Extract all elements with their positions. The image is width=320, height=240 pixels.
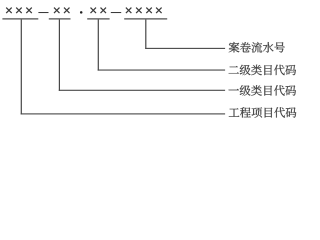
label 工程项目代码 (project code) [229,107,296,118]
em dash 1 [38,12,48,13]
code group 3 "××" (level-2 category) [91,8,107,14]
em dash 2 [111,12,121,13]
code group 1 "×××" (project code) [6,8,32,14]
wire to label 工程项目代码 (horizontal segment) [21,113,225,114]
group 2 underline bracket [49,18,71,19]
label 一级类目代码 (level-1 category code) [229,85,297,96]
wire from group 2 down to 一级类目代码 row (vertical segment) [59,20,60,91]
wire from group 4 down to 案卷流水号 row (vertical segment) [145,20,146,49]
code group 2 "××" (level-1 category) [54,8,70,14]
group 3 underline bracket [87,18,109,19]
wire to label 一级类目代码 (horizontal segment) [59,90,225,91]
wire from group 3 down to 二级类目代码 row (vertical segment) [98,20,99,71]
archive file-number structure diagram [0,0,307,134]
wire to label 案卷流水号 (horizontal segment) [145,48,225,49]
middle dot separator [80,11,83,14]
group 1 underline bracket [2,18,38,19]
wire to label 二级类目代码 (horizontal segment) [98,70,225,71]
group 4 underline bracket [124,18,167,19]
wire from group 1 down to 工程项目代码 row (vertical segment) [21,20,22,115]
label 案卷流水号 (file serial number) [229,42,285,53]
label 二级类目代码 (level-2 category code) [229,65,296,76]
code group 4 "××××" (file serial number) [126,8,162,14]
